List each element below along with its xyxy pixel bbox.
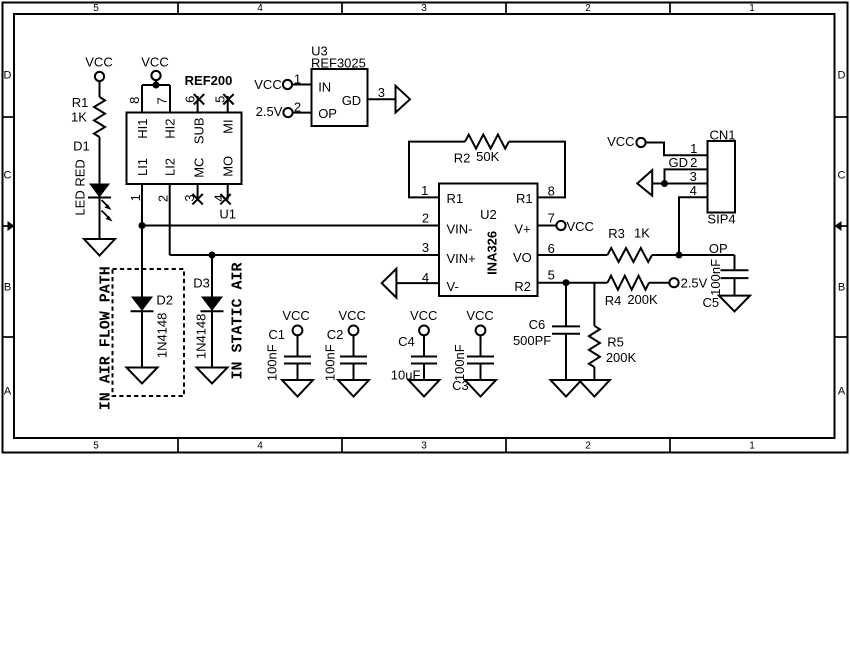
resistor R5 200K	[589, 326, 637, 367]
wire U2 pin5 to R4	[538, 282, 608, 284]
svg-text:REF3025: REF3025	[311, 55, 366, 70]
svg-text:2: 2	[585, 441, 591, 452]
svg-text:R4: R4	[605, 293, 622, 308]
wire CN1 pin4 to OP node	[679, 197, 708, 255]
ground below C2	[338, 380, 369, 397]
svg-text:VIN+: VIN+	[447, 251, 476, 266]
svg-text:LI2: LI2	[163, 158, 178, 176]
svg-text:3: 3	[422, 240, 429, 255]
svg-text:LED RED: LED RED	[72, 159, 87, 215]
wire net VIN+ to U2 pin3	[170, 254, 439, 256]
svg-text:B: B	[4, 281, 11, 293]
wire R2 to U2 pin8	[509, 142, 565, 198]
svg-text:U1: U1	[219, 207, 236, 222]
svg-text:MO: MO	[221, 156, 236, 177]
svg-text:100nF: 100nF	[708, 259, 723, 296]
svg-text:GD: GD	[669, 155, 689, 170]
svg-text:1: 1	[421, 183, 428, 198]
IC U1 REF200	[127, 73, 242, 222]
svg-text:2: 2	[690, 155, 697, 170]
ground below C4	[409, 380, 440, 397]
svg-text:HI2: HI2	[163, 119, 178, 139]
svg-text:V+: V+	[514, 221, 530, 236]
capacitor C3 100nF with VCC	[452, 308, 494, 393]
svg-text:VCC: VCC	[282, 308, 309, 323]
svg-text:5: 5	[548, 268, 555, 283]
svg-text:200K: 200K	[606, 350, 637, 365]
U2 pin 4 V- ground arrow	[382, 269, 439, 298]
connector CN1 SIP4	[669, 127, 736, 226]
diode D3 1N4148	[193, 276, 223, 359]
svg-text:VCC: VCC	[607, 134, 634, 149]
svg-text:50K: 50K	[476, 149, 499, 164]
junction at D3 branch	[209, 252, 216, 259]
wire VCC to R1	[99, 81, 101, 97]
svg-text:U2: U2	[480, 207, 497, 222]
svg-text:1N4148: 1N4148	[155, 313, 170, 359]
U1 pin 5 no-connect	[213, 94, 234, 112]
wire D1 to ground	[99, 198, 101, 240]
svg-text:C1: C1	[268, 327, 285, 342]
ground below R5	[579, 380, 610, 397]
svg-text:R3: R3	[608, 226, 625, 241]
svg-text:3: 3	[421, 3, 427, 14]
svg-text:4: 4	[257, 3, 263, 14]
ground below C6	[551, 380, 582, 397]
svg-text:2: 2	[422, 211, 429, 226]
svg-text:1N4148: 1N4148	[193, 314, 208, 360]
svg-text:100nF: 100nF	[452, 344, 467, 381]
resistor R3 1K	[608, 225, 653, 262]
svg-text:1: 1	[294, 72, 301, 87]
svg-text:D: D	[838, 70, 846, 82]
svg-text:5: 5	[93, 3, 99, 14]
border frame	[2, 2, 848, 453]
svg-text:2: 2	[294, 100, 301, 115]
ground below D3	[197, 368, 228, 384]
svg-text:MI: MI	[221, 119, 236, 133]
wire R5 branch	[593, 283, 595, 326]
junction pin2/pin3	[661, 180, 668, 187]
ground below C3	[465, 380, 496, 397]
LED D1 RED	[72, 138, 112, 221]
svg-text:LI1: LI1	[135, 158, 150, 176]
U2 pin 7 VCC terminal	[538, 219, 594, 234]
junction at pin1 / VIN- net	[139, 222, 146, 229]
svg-text:SUB: SUB	[191, 117, 206, 144]
wire U1 pin2 down	[169, 184, 171, 255]
wire D3 branch down	[211, 255, 213, 297]
svg-text:5: 5	[93, 441, 99, 452]
svg-text:2.5V: 2.5V	[681, 276, 708, 291]
svg-text:GD: GD	[342, 93, 362, 108]
wire net VIN- to U2 pin2	[142, 225, 439, 227]
junction at C6 branch	[563, 279, 570, 286]
svg-text:1K: 1K	[71, 110, 87, 125]
ground below D1	[84, 239, 115, 256]
svg-text:D1: D1	[73, 138, 90, 153]
svg-text:HI1: HI1	[135, 119, 150, 139]
svg-text:VIN-: VIN-	[447, 221, 473, 236]
svg-text:C5: C5	[702, 295, 719, 310]
svg-text:SIP4: SIP4	[707, 212, 735, 227]
svg-text:100nF: 100nF	[265, 344, 280, 381]
wire R1 to D1	[99, 137, 101, 184]
svg-text:VCC: VCC	[410, 308, 437, 323]
svg-text:7: 7	[155, 97, 170, 104]
svg-text:VCC: VCC	[254, 77, 281, 92]
svg-text:MC: MC	[191, 158, 206, 178]
svg-text:A: A	[4, 385, 12, 397]
svg-text:500PF: 500PF	[513, 333, 551, 348]
svg-text:C6: C6	[529, 317, 546, 332]
svg-text:3: 3	[421, 441, 427, 452]
wire CN1 pin3 to ground arrow	[652, 183, 707, 185]
wire U2 pin1 to R2 loop	[409, 142, 465, 198]
wire U1 pin1 down to D2	[141, 184, 143, 297]
svg-text:VCC: VCC	[85, 55, 112, 70]
capacitor C5 100nF	[702, 255, 748, 310]
U3 VCC input terminal	[254, 72, 311, 93]
junction at OP / CN1 pin4	[676, 252, 683, 259]
svg-text:1: 1	[749, 441, 755, 452]
svg-text:D2: D2	[156, 293, 173, 308]
resistor R1 1K	[71, 95, 105, 137]
svg-text:VCC: VCC	[141, 55, 168, 70]
CN1 ground arrow	[637, 170, 652, 196]
wire R3 to OP node	[652, 254, 735, 256]
svg-text:IN AIR FLOW PATH: IN AIR FLOW PATH	[98, 266, 115, 410]
svg-text:OP: OP	[709, 241, 728, 256]
svg-text:R1: R1	[516, 191, 533, 206]
U1 pin 3 no-connect	[182, 184, 203, 204]
svg-text:VCC: VCC	[338, 308, 365, 323]
U1 pin 4 no-connect	[212, 184, 231, 204]
svg-text:IN STATIC AIR: IN STATIC AIR	[229, 262, 246, 379]
svg-text:D3: D3	[193, 276, 210, 291]
svg-text:R1: R1	[447, 191, 464, 206]
svg-text:V-: V-	[447, 279, 459, 294]
svg-text:C4: C4	[398, 334, 415, 349]
svg-text:7: 7	[548, 211, 555, 226]
svg-text:1: 1	[749, 3, 755, 14]
wire U2 pin6 VO to R3	[538, 254, 608, 256]
svg-text:R2: R2	[454, 151, 471, 166]
U3 pin 3 ground arrow	[368, 85, 411, 113]
svg-text:2: 2	[155, 195, 170, 202]
wire R5 to ground	[593, 367, 595, 380]
capacitor C1 100nF with VCC	[265, 308, 311, 381]
svg-text:D: D	[4, 70, 12, 82]
2.5V terminal at R4	[649, 276, 708, 291]
wire D2 to ground	[141, 311, 143, 368]
power VCC at CN1	[607, 134, 646, 149]
svg-text:REF200: REF200	[185, 73, 233, 88]
svg-text:4: 4	[257, 441, 263, 452]
svg-text:CN1: CN1	[709, 127, 735, 142]
svg-text:VO: VO	[513, 250, 532, 265]
svg-text:C: C	[4, 170, 12, 182]
diode D2 1N4148	[131, 293, 174, 359]
svg-text:VCC: VCC	[466, 308, 493, 323]
svg-text:6: 6	[548, 241, 555, 256]
svg-text:R1: R1	[72, 95, 89, 110]
svg-text:1: 1	[690, 141, 697, 156]
svg-text:R5: R5	[607, 335, 624, 350]
resistor R2 50K feedback	[454, 135, 509, 166]
op-amp U2 INA326	[439, 184, 538, 297]
svg-text:2.5V: 2.5V	[256, 104, 283, 119]
U3 2.5V output terminal	[256, 100, 312, 120]
svg-text:IN: IN	[318, 79, 331, 94]
svg-text:C: C	[838, 170, 846, 182]
svg-text:C2: C2	[327, 327, 344, 342]
svg-text:B: B	[838, 281, 845, 293]
wire VCC to U1 pins 8,7	[142, 80, 170, 112]
U1 pin 6 no-connect	[183, 94, 205, 112]
power VCC at R1	[85, 55, 112, 82]
svg-text:1: 1	[128, 194, 143, 201]
svg-text:4: 4	[690, 183, 697, 198]
svg-text:1K: 1K	[634, 225, 650, 240]
wire VCC to CN1 pin1	[646, 143, 708, 156]
wire D3 to ground	[211, 311, 213, 368]
capacitor C2 100nF with VCC	[322, 308, 367, 381]
capacitor C4 10uF with VCC	[391, 308, 438, 382]
svg-text:A: A	[838, 385, 846, 397]
svg-text:8: 8	[127, 97, 142, 104]
svg-text:OP: OP	[318, 106, 337, 121]
wire CN1 pin2 GD to ground net	[665, 169, 708, 183]
svg-text:INA326: INA326	[484, 231, 499, 275]
svg-text:200K: 200K	[627, 292, 658, 307]
ground below D2	[127, 368, 158, 384]
svg-text:100nF: 100nF	[322, 344, 337, 381]
capacitor C6 500PF	[513, 283, 580, 380]
svg-text:VCC: VCC	[567, 219, 594, 234]
power VCC at U1	[141, 55, 168, 81]
dashed enclosure IN AIR FLOW PATH	[98, 266, 184, 410]
svg-text:2: 2	[585, 3, 591, 14]
svg-text:3: 3	[690, 169, 697, 184]
ground below C5	[719, 296, 750, 312]
IC U3 REF3025	[311, 44, 368, 126]
resistor R4 200K	[605, 276, 658, 309]
junction at VCC U1	[153, 82, 160, 89]
svg-text:3: 3	[378, 85, 385, 100]
svg-text:R2: R2	[514, 279, 531, 294]
ground below C1	[282, 380, 313, 397]
